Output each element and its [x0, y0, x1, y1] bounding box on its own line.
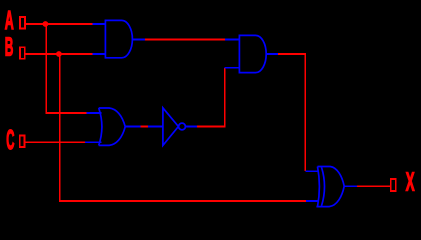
wire A horizontal — [26, 23, 93, 25]
wire NOT output horizontal — [197, 126, 225, 128]
XOR gate U5 — [305, 167, 357, 207]
wire B branch vertical — [59, 54, 61, 201]
wire NOT output riser to AND2 — [224, 68, 226, 128]
wire A branch vertical — [45, 24, 47, 113]
AND2 gate U2 — [225, 35, 278, 72]
wire OR output to NOT input — [140, 126, 148, 128]
input pin B — [20, 47, 25, 59]
OR gate U3 — [85, 108, 141, 145]
wire AND1 output to AND2 — [145, 38, 225, 40]
wire B horizontal — [26, 53, 93, 55]
NOT gate U4 — [148, 108, 197, 145]
svg-text:C: C — [6, 124, 14, 155]
svg-text:B: B — [5, 31, 14, 61]
svg-text:X: X — [406, 167, 415, 197]
junction dot on wire B — [56, 51, 62, 57]
wire XOR output to pin X — [357, 185, 391, 187]
input pin A — [20, 17, 25, 29]
AND1 gate U1 — [92, 20, 145, 57]
wire AND2 output horizontal — [278, 53, 306, 55]
output pin X — [391, 179, 396, 191]
junction dot on wire A — [43, 21, 49, 27]
wire OR top input horizontal — [45, 112, 86, 114]
wire right vertical down to XOR — [304, 53, 306, 171]
input pin C — [20, 135, 25, 147]
wire C horizontal — [26, 141, 85, 143]
wire bottom horizontal to XOR — [59, 200, 306, 202]
